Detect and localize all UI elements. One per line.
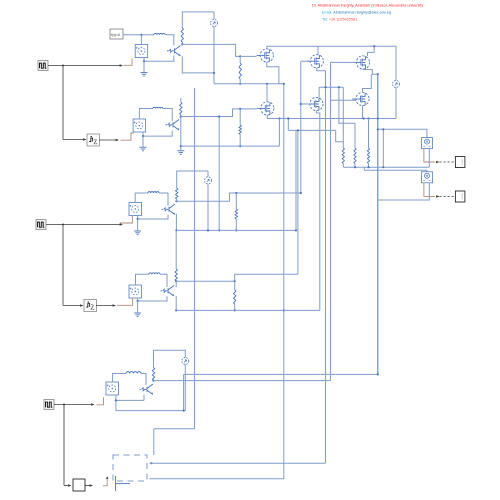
- wire M6 source: [362, 106, 364, 119]
- wire Rb feed: [339, 87, 355, 123]
- wire Rb stub: [354, 164, 356, 168]
- junction load mid bottom: [382, 166, 384, 168]
- svg-text:Tel: +20 1025425581: Tel: +20 1025425581: [322, 17, 357, 21]
- solver configuration block f(x)=0: [110, 29, 123, 39]
- wire R3 top stub: [180, 98, 182, 102]
- voltage sensor V1: [422, 138, 433, 149]
- wire L4 to T4: [160, 274, 167, 287]
- junction h1 drop bottom: [218, 229, 220, 231]
- driver transistor T5: [140, 384, 154, 395]
- junction M6 source node: [363, 117, 365, 119]
- wire source5 plus: [113, 374, 126, 383]
- wire M2-M5 gate feed vertical: [300, 61, 302, 193]
- junction source3 minus: [137, 218, 139, 220]
- wire V2 dashed signal: [440, 195, 455, 197]
- wire cell3-cell4 column: [175, 230, 177, 269]
- wire sensor3 stub: [207, 171, 209, 177]
- wire cell5 h1 drop: [183, 374, 185, 410]
- wire phase B drop: [325, 71, 327, 464]
- junction pulse2 branch: [62, 224, 64, 226]
- pulse generator 1 block: [38, 61, 48, 71]
- svg-text:Dr. Abdelrahman Farghly, Assis: Dr. Abdelrahman Farghly, Assistant profe…: [312, 3, 423, 7]
- junction phase A top: [283, 83, 285, 85]
- wire load feed h: [288, 129, 335, 131]
- brown PS wire cell3: [120, 216, 132, 223]
- wire load bottom bus: [343, 166, 429, 168]
- controlled voltage source 2: [133, 119, 146, 132]
- wire into NOT block: [64, 485, 70, 487]
- wire M2 gate lead: [301, 60, 310, 62]
- junction R7 bottom: [175, 280, 177, 282]
- arrow converter4 out: [113, 304, 116, 307]
- junction phase B fan: [324, 86, 326, 88]
- load resistor Rc: [367, 148, 369, 164]
- junction cell4 gate R top: [234, 280, 236, 282]
- junction Rc bottom: [367, 166, 369, 168]
- resistor R7 collector cell4: [175, 269, 177, 281]
- scope 2: [455, 191, 465, 202]
- wire converter2 output: [99, 139, 117, 141]
- wire source1 plus: [140, 35, 142, 45]
- wire cell2 output upper: [181, 109, 257, 117]
- wire load feed stub: [287, 119, 289, 131]
- wire converter4 output: [96, 305, 114, 307]
- wire R7 stub: [175, 280, 177, 282]
- junction R1 bottom: [181, 43, 183, 45]
- current sensor cell1: [211, 20, 218, 27]
- wire L2 to T2: [163, 109, 172, 122]
- wire Rc stub: [368, 164, 370, 168]
- wire pulse1 output: [48, 65, 122, 67]
- junction return vertical bottom: [295, 229, 297, 231]
- wire bottom row upper: [150, 462, 326, 464]
- wire subsystem port h: [116, 483, 131, 485]
- arrow cell6 PS: [106, 476, 109, 479]
- junction pulse3 branch: [63, 404, 65, 406]
- junction load mid top: [382, 128, 384, 130]
- wire T1 emitter down: [182, 56, 214, 73]
- wire source1 to ground: [143, 61, 145, 72]
- wire bottom row lower: [150, 478, 284, 480]
- wire cell3 output upper: [176, 193, 300, 201]
- wire cell4 output upper: [176, 274, 298, 281]
- wire riser cell2 return: [278, 119, 280, 147]
- junction gate vertical bottom: [300, 192, 302, 194]
- simulink-PS converter 2: [87, 134, 100, 146]
- wire source3 plus: [135, 193, 148, 203]
- junction pulse1 branch: [62, 65, 64, 67]
- controlled voltage source 3: [129, 203, 142, 216]
- inductor L3: [148, 192, 159, 193]
- wire pulse1 down branch: [62, 66, 64, 140]
- wire Rc top: [368, 119, 370, 149]
- simulink-PS converter 4: [84, 300, 97, 312]
- wire cell4 output lower: [176, 309, 320, 311]
- wire pulse2 down branch: [62, 225, 64, 306]
- resistor R2 gate: [239, 63, 241, 79]
- wire source2 minus loop: [143, 131, 172, 137]
- wire gate to M1: [240, 55, 256, 57]
- driver transistor T3: [162, 204, 176, 215]
- ground cell 2 emitter: [177, 151, 184, 155]
- ground cell 2: [140, 147, 147, 151]
- wire solver to cell1 node: [123, 34, 154, 36]
- wire source3 ground stub: [137, 219, 139, 231]
- junction cell2 h1: [180, 115, 182, 117]
- wire R8 stub: [234, 281, 236, 290]
- arrow NOT out: [90, 484, 93, 487]
- resistor R1 collector: [181, 28, 183, 42]
- driver transistor T4: [161, 286, 175, 297]
- junction load feed stub: [287, 117, 289, 119]
- wire Rb top: [354, 123, 356, 148]
- wire R8 bottom: [234, 304, 236, 310]
- junction cell5 h1 drop: [183, 410, 185, 412]
- brown PS wire cell1: [124, 59, 133, 66]
- junction M1-M4 node: [266, 83, 268, 85]
- driver transistor T2: [166, 120, 180, 131]
- wire M3 drain: [368, 46, 375, 56]
- wire R5 stub: [176, 199, 178, 201]
- wire source4 ground stub: [137, 301, 139, 313]
- wire source1 minus loop: [144, 56, 174, 62]
- junction phase A mid: [283, 309, 285, 311]
- load resistor Ra: [342, 148, 344, 164]
- wire R6 bottom: [235, 219, 237, 230]
- pulse generator 3 block: [44, 400, 54, 410]
- wire M3 source to phase C: [363, 69, 378, 74]
- wire R1 stub: [181, 42, 183, 44]
- wire sensor3 down: [207, 184, 209, 231]
- junction Rb feed: [338, 86, 340, 88]
- wire long vertical phase A: [283, 84, 285, 479]
- dashed subsystem box: [113, 455, 147, 481]
- wire sensor1 top: [213, 12, 215, 20]
- wire cell2 h1 drop: [218, 117, 220, 231]
- wire V2 feed link: [363, 167, 365, 170]
- brown PS wire cell5: [97, 397, 104, 405]
- wire T2 column: [180, 115, 182, 151]
- arrow V2 signal: [436, 195, 439, 198]
- junction h1 drop top: [218, 115, 220, 117]
- wire cell5 loop bottom: [116, 410, 185, 412]
- wire V2 return: [378, 183, 430, 200]
- wire M3 gate lead: [331, 61, 357, 63]
- MOSFET M2: [307, 55, 324, 68]
- wire R5 top loop: [177, 171, 208, 188]
- wire DC+ drop: [395, 46, 397, 80]
- wire V1 return: [428, 149, 430, 168]
- wire phase B fan: [319, 86, 343, 88]
- wire source3 minus loop: [138, 215, 168, 219]
- MOSFET M3: [353, 56, 370, 69]
- wire cell3 output lower: [176, 229, 296, 231]
- wire V2 top feed: [364, 170, 427, 172]
- wire L1 to T1 base: [165, 35, 174, 45]
- wire NOT output: [85, 485, 92, 487]
- controlled voltage source 4: [129, 285, 142, 298]
- resistor R8 gate cell4: [234, 290, 236, 304]
- junction Rc riser top: [367, 117, 369, 119]
- arrow into cell3 input: [120, 223, 123, 226]
- junction cell3 gate R top: [235, 192, 237, 194]
- svg-text:f(x)=0: f(x)=0: [111, 33, 120, 37]
- resistor R9 collector cell5: [152, 368, 154, 381]
- junction cell1 emitter node: [213, 72, 215, 74]
- junction V1 feed phase C: [377, 128, 379, 130]
- resistor R6 gate cell3: [235, 209, 237, 219]
- wire M3 gate feed vertical: [330, 62, 332, 380]
- wire pulse3 output: [54, 404, 93, 406]
- wire R4 stub: [239, 109, 241, 125]
- wire return vertical mid: [295, 130, 297, 230]
- controlled voltage source 1: [135, 45, 148, 58]
- wire cell4 riser: [297, 130, 299, 274]
- arrow into cell5 input: [91, 403, 94, 406]
- wire M1 source: [267, 62, 279, 84]
- ground cell 1: [141, 73, 148, 77]
- brown V2 output: [424, 183, 435, 197]
- pulse generator 2 block: [36, 220, 46, 230]
- load resistor Rb: [354, 148, 356, 164]
- junction source2 minus: [142, 135, 144, 137]
- wire M5 drain stub: [318, 87, 320, 97]
- wire M6 drain: [363, 74, 372, 92]
- junction cell5 output upper end: [377, 373, 379, 375]
- current sensor DC link: [393, 81, 400, 88]
- wire cell4 h1 link: [175, 281, 177, 287]
- wire pulse3 down branch: [63, 405, 65, 486]
- junction cell2 h2: [180, 145, 182, 147]
- wire M2 drain: [317, 46, 319, 54]
- wire L5 to T5: [141, 374, 146, 386]
- junction M3 drain bus: [373, 45, 375, 47]
- junction R2 bottom node: [239, 83, 241, 85]
- wire M2 source: [317, 68, 326, 71]
- wire cell5 output upper: [184, 373, 378, 375]
- arrow into NOT block: [68, 484, 71, 487]
- wire mid vertical to box: [153, 429, 155, 455]
- wire T3 emitter down: [175, 214, 177, 231]
- wire M4 source: [267, 115, 396, 119]
- wire Ra top: [342, 87, 344, 148]
- junction DC- phase C cross: [377, 117, 379, 119]
- junction sensor3 bottom: [207, 229, 209, 231]
- wire sensor1 down: [213, 26, 215, 83]
- voltage sensor V2: [422, 172, 433, 183]
- junction bottom row upper start: [150, 462, 152, 464]
- wire M4 drain: [266, 84, 268, 102]
- wire M5 source: [316, 111, 319, 311]
- wire cell2 output lower: [181, 145, 280, 147]
- brown PS wire cell2: [121, 133, 134, 140]
- junction cell3 emitter: [175, 229, 177, 231]
- arrow into converter 2: [83, 138, 86, 141]
- brown PS wire cell6: [103, 478, 107, 485]
- junction cell1 source top: [140, 34, 142, 36]
- wire pulse2 output: [46, 224, 122, 226]
- wire load step A: [336, 130, 344, 141]
- arrow V1 signal: [436, 161, 439, 164]
- wire source4 minus loop: [138, 296, 167, 301]
- inductor L1: [154, 33, 165, 34]
- junction R5 bottom: [175, 200, 177, 202]
- wire R2 bottom: [239, 79, 241, 84]
- wire L3 to T3: [159, 193, 168, 206]
- wire M5 gate lead: [301, 103, 310, 105]
- arrow into converter 4: [80, 304, 83, 307]
- wire source4 plus: [136, 274, 150, 285]
- junction R9 bottom: [152, 380, 154, 382]
- resistor R4 gate cell2: [239, 125, 241, 134]
- junction M4 gate tap: [239, 108, 241, 110]
- wire into S-PS converter 4: [63, 305, 82, 307]
- wire into S-PS converter 2: [63, 139, 85, 141]
- wire source5 bottom h: [116, 399, 144, 401]
- junction cell4 emitter: [175, 309, 177, 311]
- resistor R5 collector cell3: [176, 188, 178, 199]
- wire T5 emitter: [143, 395, 145, 401]
- inductor L2: [153, 107, 163, 108]
- wire T4 emitter down: [175, 296, 177, 311]
- junction M5 gate tap: [300, 103, 302, 105]
- current sensor cell5: [182, 358, 189, 365]
- MOSFET M1: [257, 49, 274, 62]
- wire R1 top to loop: [182, 12, 214, 28]
- wire cell5 output lower: [154, 380, 331, 382]
- wire source2 plus: [139, 109, 153, 120]
- MOSFET M6: [352, 92, 369, 105]
- wire sensor5 down: [184, 365, 186, 411]
- ground cell 3: [134, 231, 141, 235]
- junction source4 minus: [137, 300, 139, 302]
- inductor L4: [149, 273, 160, 274]
- current sensor cell3: [205, 177, 212, 184]
- junction M4 source riser: [278, 117, 280, 119]
- wire M6 gate lead: [331, 99, 356, 101]
- junction R6 bottom: [235, 229, 237, 231]
- junction R4 bottom: [239, 145, 241, 147]
- wire source5 minus loop: [115, 395, 117, 411]
- MOSFET M5: [306, 97, 323, 110]
- wire M1 drain: [266, 46, 268, 49]
- junction source5 minus: [115, 399, 117, 401]
- wire long phase C vertical: [377, 74, 379, 374]
- wire source2 ground stub: [142, 136, 144, 147]
- controlled voltage source 5: [106, 382, 119, 395]
- wire V1 dashed signal: [440, 161, 455, 163]
- arrow into cell1 input: [120, 64, 123, 67]
- wire Ra stub: [342, 164, 344, 168]
- wire subsystem port vertical: [115, 476, 117, 491]
- wire load mid vertical: [382, 129, 384, 167]
- wire V1 feed: [378, 129, 427, 137]
- wire R6 stub top: [235, 193, 237, 209]
- ground cell 4: [134, 313, 141, 317]
- wire DC sensor down: [395, 88, 397, 119]
- junction phase C: [377, 73, 379, 75]
- wire R4 bottom: [239, 134, 241, 146]
- junction Rb bottom: [354, 166, 356, 168]
- brown PS wire cell4: [117, 298, 133, 306]
- driver transistor T1: [167, 46, 181, 57]
- MOSFET M4: [257, 102, 274, 115]
- resistor R3 collector cell2: [180, 102, 182, 115]
- junction cell4 riser top: [297, 129, 299, 131]
- inductor L5: [126, 372, 141, 374]
- logic NOT block: [73, 479, 85, 491]
- wire phase A bus: [214, 83, 284, 85]
- junction source1 minus: [143, 60, 145, 62]
- svg-text:Email: Abdelrahman.farghly@ale: Email: Abdelrahman.farghly@alex.edu.eg: [322, 10, 391, 14]
- junction R2 top: [239, 55, 241, 57]
- junction R8 bottom: [234, 309, 236, 311]
- arrow converter2 out: [116, 139, 119, 142]
- scope 1: [455, 157, 465, 168]
- wire R9 loop top: [154, 350, 186, 367]
- brown V1 output: [424, 149, 435, 162]
- wire cell1 gate bus: [182, 44, 240, 56]
- wire DC+ bus: [267, 45, 396, 47]
- wire long mid vertical: [154, 88, 195, 429]
- wire R2 stub top: [239, 56, 241, 63]
